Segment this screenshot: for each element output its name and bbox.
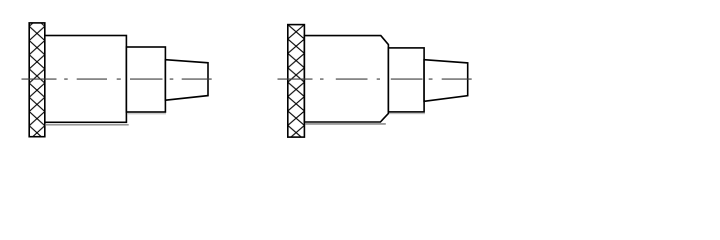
shadow line under step S1 [127,113,166,115]
centerline CL1 (dash-dot axis, left connector) [22,78,212,80]
shadow line under step S2 [389,113,425,115]
flange F1 (hatched mounting flange, left connector) [29,23,45,137]
tip T2 (tapered nose, right connector) [424,60,468,102]
step S1 (reduced diameter section, left connector) [126,47,165,112]
shadow line under body B2 [305,123,386,125]
tip T1 (tapered nose, left connector) [165,60,208,100]
body B2 (main body with chamfered right corners, right connector) [304,36,388,122]
step S2 (reduced diameter section, right connector) [388,48,424,112]
centerline CL2 (dash-dot axis, right connector) [278,78,472,80]
body B1 (main cylindrical body, left connector) [45,36,127,123]
shadow line under body B1 [45,124,129,126]
flange F2 (hatched mounting flange, right connector) [288,25,305,138]
